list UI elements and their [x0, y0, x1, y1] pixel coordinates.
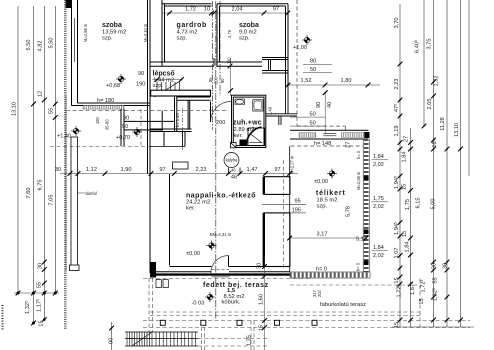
svg-text:15: 15	[259, 325, 265, 331]
svg-text:27: 27	[346, 142, 352, 148]
svg-text:190: 190	[136, 82, 145, 88]
svg-text:h= 1,40: h= 1,40	[175, 113, 180, 127]
svg-text:szp.: szp.	[102, 36, 113, 42]
svg-text:h= 148: h= 148	[314, 141, 331, 147]
svg-text:50: 50	[310, 121, 316, 127]
svg-text:40: 40	[327, 102, 333, 108]
svg-text:szoba: szoba	[102, 22, 122, 29]
svg-text:1,84: 1,84	[405, 242, 411, 253]
svg-text:97: 97	[273, 7, 279, 13]
svg-text:szoba: szoba	[239, 22, 259, 29]
svg-text:szp.: szp.	[317, 204, 328, 210]
svg-text:fedett bej. terasz: fedett bej. terasz	[203, 282, 269, 289]
svg-text:faburkolatú terasz: faburkolatú terasz	[320, 302, 366, 308]
svg-text:gardrob: gardrob	[177, 22, 207, 29]
svg-text:+1,40: +1,40	[57, 134, 71, 140]
svg-text:85: 85	[208, 77, 213, 82]
svg-text:15: 15	[394, 322, 400, 328]
svg-text:7,05: 7,05	[49, 195, 55, 206]
svg-text:15: 15	[402, 231, 408, 237]
svg-text:1,07: 1,07	[394, 248, 400, 259]
svg-text:2,04: 2,04	[232, 7, 243, 13]
svg-text:15: 15	[394, 277, 400, 283]
svg-text:±0,00: ±0,00	[314, 179, 328, 185]
svg-text:ker.: ker.	[186, 206, 196, 212]
svg-text:80: 80	[123, 116, 129, 122]
svg-text:M=2,08 m: M=2,08 m	[356, 171, 361, 190]
svg-text:90: 90	[138, 71, 144, 77]
svg-text:195: 195	[292, 207, 301, 213]
svg-text:1,60: 1,60	[259, 294, 265, 305]
svg-text:160: 160	[95, 116, 100, 124]
svg-text:M=3,10 m: M=3,10 m	[143, 23, 148, 42]
svg-text:h= 0: h= 0	[316, 267, 327, 273]
svg-text:7,60: 7,60	[26, 188, 32, 199]
svg-text:97: 97	[159, 167, 165, 173]
svg-text:6,15: 6,15	[416, 198, 422, 209]
svg-text:télikert: télikert	[316, 190, 346, 197]
svg-text:2,05: 2,05	[427, 99, 433, 110]
svg-text:6,75: 6,75	[38, 180, 44, 191]
svg-text:5,78: 5,78	[346, 206, 352, 217]
svg-text:5,50: 5,50	[49, 38, 55, 49]
svg-text:1,75: 1,75	[405, 199, 411, 210]
svg-text:5,00: 5,00	[431, 199, 437, 210]
svg-text:2,23: 2,23	[196, 167, 207, 173]
svg-text:2,02: 2,02	[373, 162, 384, 168]
svg-text:15: 15	[419, 298, 425, 304]
svg-text:30: 30	[38, 263, 44, 269]
svg-text:5,50: 5,50	[26, 40, 32, 51]
svg-text:1,35: 1,35	[247, 335, 253, 346]
svg-text:BM=2,31 m: BM=2,31 m	[210, 232, 232, 237]
svg-text:M=2,27 m: M=2,27 m	[290, 155, 295, 174]
svg-text:h= 180: h= 180	[97, 98, 114, 104]
svg-text:1,84: 1,84	[373, 154, 384, 160]
svg-text:27: 27	[404, 136, 410, 142]
svg-text:1,32: 1,32	[434, 76, 440, 87]
svg-text:202: 202	[317, 289, 322, 297]
svg-text:12: 12	[38, 91, 44, 97]
svg-text:lépcső: lépcső	[153, 71, 175, 78]
svg-text:30: 30	[257, 263, 263, 269]
svg-text:50: 50	[122, 124, 128, 130]
svg-text:55: 55	[37, 282, 43, 288]
svg-text:M=2,88 m: M=2,88 m	[83, 23, 88, 42]
svg-text:50: 50	[310, 67, 316, 73]
svg-text:200: 200	[213, 76, 218, 84]
svg-text:16: 16	[432, 141, 438, 147]
svg-text:13,10: 13,10	[12, 102, 18, 116]
svg-text:kályha: kályha	[226, 158, 239, 163]
svg-text:30: 30	[55, 167, 61, 173]
svg-text:5,13: 5,13	[356, 237, 367, 243]
svg-text:ker.: ker.	[234, 133, 244, 139]
svg-text:szp.: szp.	[153, 83, 164, 89]
svg-text:1,72: 1,72	[185, 7, 196, 13]
svg-text:30: 30	[443, 263, 449, 269]
svg-text:szp.: szp.	[239, 36, 250, 42]
svg-text:±0,00: ±0,00	[186, 251, 200, 257]
svg-text:2,23: 2,23	[394, 79, 400, 90]
svg-text:15: 15	[402, 184, 408, 190]
svg-text:+1,00: +1,00	[293, 45, 307, 51]
svg-text:köburk.: köburk.	[222, 300, 241, 306]
svg-text:támfal: támfal	[86, 191, 97, 196]
svg-text:3,70: 3,70	[394, 18, 400, 29]
svg-text:30: 30	[432, 263, 438, 269]
svg-text:1,47: 1,47	[247, 167, 258, 173]
svg-text:46: 46	[231, 168, 236, 173]
svg-text:1,19: 1,19	[394, 126, 400, 137]
svg-text:+0,68: +0,68	[106, 83, 120, 89]
svg-text:h= 0: h= 0	[356, 262, 361, 271]
svg-text:55: 55	[49, 108, 55, 114]
svg-text:1,75: 1,75	[373, 196, 384, 202]
svg-text:szp.: szp.	[177, 36, 188, 42]
svg-text:200: 200	[216, 120, 225, 126]
svg-text:97: 97	[274, 167, 280, 173]
svg-text:1,84: 1,84	[373, 245, 384, 251]
svg-text:+0,70: +0,70	[116, 135, 130, 141]
svg-text:3,17: 3,17	[317, 232, 328, 238]
svg-text:55: 55	[433, 277, 439, 283]
svg-text:1,84: 1,84	[402, 152, 408, 163]
svg-text:10: 10	[204, 7, 210, 13]
svg-text:35-80: 35-80	[105, 119, 110, 130]
svg-text:80: 80	[310, 59, 316, 65]
svg-text:2,75: 2,75	[227, 29, 232, 38]
svg-text:46: 46	[231, 175, 237, 181]
svg-text:3,75: 3,75	[427, 39, 433, 50]
svg-text:1,52: 1,52	[301, 78, 312, 84]
svg-text:4,82: 4,82	[38, 41, 44, 52]
svg-text:15: 15	[39, 320, 45, 326]
svg-text:50: 50	[310, 112, 316, 118]
svg-text:nappali-ko.-étkező: nappali-ko.-étkező	[186, 193, 256, 200]
svg-text:11,28: 11,28	[440, 117, 446, 131]
svg-text:h= 0: h= 0	[356, 150, 361, 159]
svg-text:-0 03: -0 03	[192, 301, 205, 307]
svg-text:95: 95	[295, 198, 301, 204]
svg-text:zuh.+wc: zuh.+wc	[233, 120, 262, 127]
svg-text:1,90: 1,90	[121, 167, 132, 173]
svg-text:2,02: 2,02	[373, 253, 384, 259]
svg-text:90: 90	[316, 102, 322, 108]
svg-text:2,02: 2,02	[373, 204, 384, 210]
svg-text:90: 90	[220, 78, 225, 83]
svg-text:13,10: 13,10	[454, 123, 460, 137]
svg-text:1,12: 1,12	[86, 167, 97, 173]
svg-text:1,80: 1,80	[341, 78, 352, 84]
